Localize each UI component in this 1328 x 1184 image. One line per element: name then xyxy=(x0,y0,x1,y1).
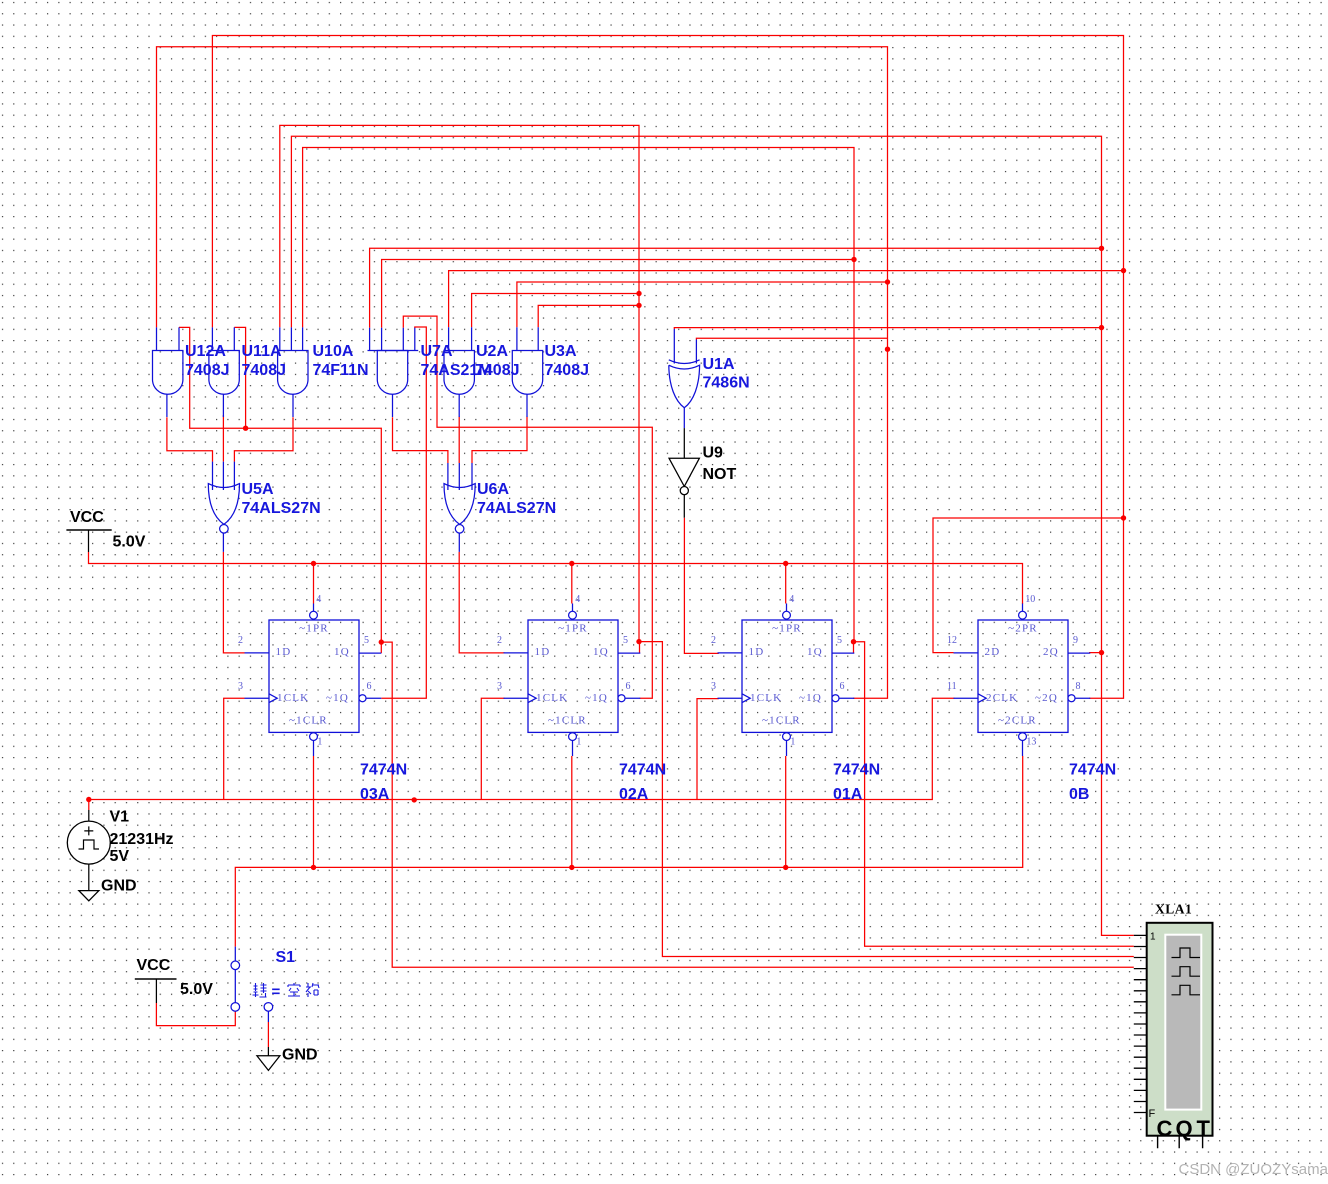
svg-text:=: = xyxy=(272,984,281,1001)
svg-text:8: 8 xyxy=(1076,681,1081,692)
svg-text:XLA1: XLA1 xyxy=(1155,902,1192,917)
svg-text:03A: 03A xyxy=(360,786,390,803)
svg-text:GND: GND xyxy=(101,877,137,894)
svg-text:01A: 01A xyxy=(833,786,863,803)
svg-text:~1Q: ~1Q xyxy=(799,692,822,704)
svg-text:0B: 0B xyxy=(1069,786,1089,803)
svg-text:F: F xyxy=(1149,1108,1156,1120)
svg-text:3: 3 xyxy=(238,681,243,692)
svg-text:7474N: 7474N xyxy=(833,761,880,778)
svg-text:U2A: U2A xyxy=(476,343,508,360)
svg-text:74F11N: 74F11N xyxy=(313,362,369,379)
svg-text:7408J: 7408J xyxy=(242,362,287,379)
svg-text:4: 4 xyxy=(789,594,794,605)
svg-text:2CLK: 2CLK xyxy=(986,692,1018,704)
svg-text:T: T xyxy=(1197,1116,1211,1141)
svg-text:~1CLR: ~1CLR xyxy=(762,714,801,726)
svg-text:~1PR: ~1PR xyxy=(558,623,588,635)
svg-text:~2CLR: ~2CLR xyxy=(998,714,1037,726)
svg-text:3: 3 xyxy=(497,681,502,692)
svg-text:C: C xyxy=(1157,1116,1173,1141)
svg-text:74ALS27N: 74ALS27N xyxy=(242,500,321,517)
svg-text:V1: V1 xyxy=(110,809,130,826)
svg-text:VCC: VCC xyxy=(70,509,104,526)
svg-text:U1A: U1A xyxy=(703,356,735,373)
svg-text:4: 4 xyxy=(575,594,580,605)
svg-text:1Q: 1Q xyxy=(807,646,823,658)
svg-text:~2Q: ~2Q xyxy=(1035,692,1058,704)
svg-text:4: 4 xyxy=(316,594,321,605)
svg-text:1CLK: 1CLK xyxy=(750,692,782,704)
svg-text:7474N: 7474N xyxy=(1069,761,1116,778)
svg-text:U10A: U10A xyxy=(313,343,354,360)
svg-text:NOT: NOT xyxy=(703,466,737,483)
svg-text:5.0V: 5.0V xyxy=(180,981,213,998)
svg-text:U11A: U11A xyxy=(242,343,282,360)
svg-text:02A: 02A xyxy=(619,786,649,803)
svg-text:~1PR: ~1PR xyxy=(772,623,802,635)
svg-text:~1Q: ~1Q xyxy=(585,692,608,704)
svg-text:1Q: 1Q xyxy=(593,646,609,658)
svg-text:7408J: 7408J xyxy=(185,362,230,379)
svg-text:CSDN @ZUOZYsama: CSDN @ZUOZYsama xyxy=(1179,1161,1328,1178)
svg-text:1D: 1D xyxy=(749,646,765,658)
svg-text:U3A: U3A xyxy=(545,343,577,360)
svg-text:U6A: U6A xyxy=(477,481,509,498)
svg-text:1: 1 xyxy=(790,737,795,748)
svg-text:1: 1 xyxy=(1150,932,1156,943)
svg-text:~1CLR: ~1CLR xyxy=(548,714,587,726)
svg-text:U12A: U12A xyxy=(185,343,226,360)
svg-text:5: 5 xyxy=(623,635,628,646)
svg-text:3: 3 xyxy=(711,681,716,692)
svg-text:10: 10 xyxy=(1025,594,1035,605)
svg-text:2: 2 xyxy=(497,635,502,646)
svg-text:1CLK: 1CLK xyxy=(536,692,568,704)
svg-text:6: 6 xyxy=(367,681,372,692)
svg-text:5: 5 xyxy=(364,635,369,646)
svg-text:7474N: 7474N xyxy=(619,761,666,778)
svg-text:1Q: 1Q xyxy=(334,646,350,658)
svg-text:7486N: 7486N xyxy=(703,375,750,392)
svg-text:1D: 1D xyxy=(276,646,292,658)
svg-text:~1CLR: ~1CLR xyxy=(289,714,328,726)
svg-text:7474N: 7474N xyxy=(360,761,407,778)
svg-text:2: 2 xyxy=(711,635,716,646)
svg-text:1: 1 xyxy=(317,737,322,748)
svg-text:2: 2 xyxy=(238,635,243,646)
svg-text:1D: 1D xyxy=(535,646,551,658)
svg-text:1CLK: 1CLK xyxy=(277,692,309,704)
svg-text:U5A: U5A xyxy=(242,481,274,498)
svg-text:~2PR: ~2PR xyxy=(1008,623,1038,635)
svg-text:1: 1 xyxy=(576,737,581,748)
svg-text:~1Q: ~1Q xyxy=(326,692,349,704)
svg-text:6: 6 xyxy=(840,681,845,692)
svg-text:7408J: 7408J xyxy=(475,362,520,379)
svg-text:6: 6 xyxy=(626,681,631,692)
svg-text:S1: S1 xyxy=(276,949,296,966)
svg-text:9: 9 xyxy=(1073,635,1078,646)
svg-text:GND: GND xyxy=(282,1047,318,1064)
svg-text:21231Hz: 21231Hz xyxy=(110,831,174,848)
svg-text:74ALS27N: 74ALS27N xyxy=(477,500,556,517)
svg-text:7408J: 7408J xyxy=(545,362,590,379)
svg-text:13: 13 xyxy=(1026,737,1036,748)
svg-text:VCC: VCC xyxy=(137,957,171,974)
svg-text:12: 12 xyxy=(947,635,957,646)
svg-text:U9: U9 xyxy=(703,445,724,462)
svg-text:~1PR: ~1PR xyxy=(299,623,329,635)
svg-text:2Q: 2Q xyxy=(1043,646,1059,658)
svg-text:5.0V: 5.0V xyxy=(113,534,146,551)
svg-text:5V: 5V xyxy=(110,848,130,865)
svg-text:U7A: U7A xyxy=(421,343,453,360)
svg-text:11: 11 xyxy=(947,681,957,692)
svg-text:2D: 2D xyxy=(985,646,1001,658)
svg-text:5: 5 xyxy=(837,635,842,646)
svg-text:Q: Q xyxy=(1176,1116,1193,1141)
